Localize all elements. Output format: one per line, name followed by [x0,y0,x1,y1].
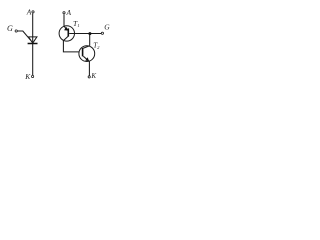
terminal circle K (model) [88,76,90,78]
terminal circle A (model) [63,12,65,14]
terminal circle G (model) [101,32,103,34]
wire T1 collector to T2 base [63,41,79,52]
svg-text:K: K [90,72,96,80]
junction dot [88,32,91,35]
transistor T2 collector [83,46,89,49]
terminal circle G (thyristor) [15,30,17,32]
gate wire [18,31,31,40]
wire anode (thyristor) [32,13,34,43]
transistor T1 emitter with arrow (PNP) [64,26,66,28]
transistor T1 collector [63,36,68,40]
wire junction to T2 collector [89,34,91,46]
terminal circle A (thyristor) [32,11,34,13]
svg-text:1: 1 [77,23,79,28]
transistor T2 base bar [82,48,84,56]
svg-text:A: A [66,8,72,17]
thyristor triangle [29,37,37,43]
wire cathode (thyristor) [32,44,34,75]
transistor T2 emitter with arrow (NPN) [83,56,89,61]
transistor T1 base bar [67,28,69,36]
svg-text:G: G [104,22,110,31]
wire T1 base to G [69,33,101,35]
svg-text:G: G [7,24,13,33]
transistor T2 envelope [79,46,95,62]
cathode bar [28,43,38,45]
transistor T1 envelope [59,26,74,41]
wire T2 emitter to K [88,62,90,76]
wire anode to T1 emitter [63,14,65,26]
svg-text:A: A [26,7,32,16]
terminal circle K (thyristor) [31,75,33,77]
